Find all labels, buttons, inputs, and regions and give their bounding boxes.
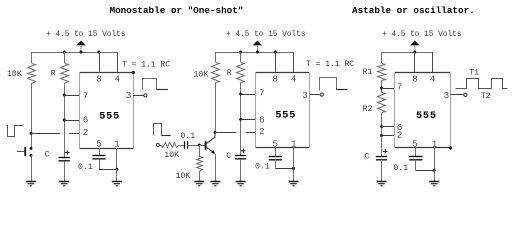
- capacitor 0.1 (circuit 2): [269, 156, 282, 158]
- svg-text:555: 555: [99, 111, 120, 122]
- svg-text:10K: 10K: [176, 172, 191, 181]
- wire: 0.1 down (c3): [415, 160, 417, 171]
- svg-text:8: 8: [96, 74, 102, 85]
- ground (C, circuit 3): [377, 181, 387, 183]
- dot at box1 top-right corner: [132, 71, 135, 74]
- svg-text:+ 4.5 to 15 Volts: + 4.5 to 15 Volts: [382, 31, 462, 39]
- junction: pin1/0.1 (c1): [115, 168, 118, 171]
- svg-text:555: 555: [416, 111, 437, 122]
- svg-text:R1: R1: [363, 68, 373, 77]
- svg-text:0.1: 0.1: [180, 132, 195, 141]
- junction: pin6 node: [63, 119, 66, 122]
- wire: C to ground (c2): [240, 159, 242, 182]
- svg-text:3: 3: [302, 90, 308, 101]
- svg-text:R: R: [51, 70, 56, 79]
- junction: trigger node / pin2 wire: [30, 132, 33, 135]
- wire: C to ground (c3): [381, 160, 383, 182]
- wire: pin 7 lead (c2): [241, 94, 256, 96]
- junction: collector/pin2 node: [214, 131, 217, 134]
- polarity + (C circuit 1): [65, 152, 69, 154]
- wire: emitter to ground: [215, 154, 217, 182]
- wire: pin 5 stub down (c2): [275, 148, 277, 156]
- op-amp/timer U1 555 box (circuit 1): [80, 72, 134, 74]
- svg-text:0.1: 0.1: [78, 163, 93, 172]
- svg-text:7: 7: [259, 88, 265, 99]
- svg-text:+ 4.5 to 15 Volts: + 4.5 to 15 Volts: [46, 31, 126, 39]
- wire: pin 1 stub down (c2): [293, 148, 295, 169]
- svg-text:10K: 10K: [164, 151, 179, 160]
- svg-text:2: 2: [83, 127, 89, 138]
- capacitor C (circuit 1): [59, 157, 70, 159]
- junction: arrow/pin8 on rail 3: [413, 51, 416, 54]
- wire: pin 3 output lead (c1): [133, 95, 143, 97]
- trigger input terminal (c2): [156, 143, 159, 146]
- transistor collector: [207, 132, 216, 143]
- polarity + (C circuit 3): [383, 150, 387, 152]
- output terminal circle (c3): [464, 93, 467, 96]
- wire: R bottom down to cap C: [64, 83, 66, 158]
- capacitor 0.1 (circuit 1): [92, 155, 105, 157]
- output terminal circle (c1): [144, 94, 147, 97]
- wire: R2 bottom down to cap C (c3): [381, 113, 383, 157]
- wire: 0.1 bottom to pin1 (c2): [275, 168, 293, 170]
- wire: 0.1 bottom to pin1 (c3): [416, 170, 435, 172]
- svg-text:8: 8: [272, 74, 278, 85]
- junction: pin2 node (c3): [380, 134, 383, 137]
- capacitor C (circuit 2): [235, 155, 246, 157]
- wire: 0.1 down (c2): [275, 159, 277, 168]
- timer U2 555 box (circuit 2): [256, 72, 310, 74]
- svg-text:8: 8: [412, 74, 418, 85]
- resistor 10K to ground (trigger c2): [197, 157, 203, 172]
- supply arrow (circuit 3): [410, 41, 419, 46]
- wire: pin 4 stub (c2): [293, 52, 295, 72]
- junction: pin8 on rail 1: [98, 51, 101, 54]
- wire: pin 6 lead (c3): [382, 126, 395, 128]
- svg-text:3: 3: [444, 90, 450, 101]
- wire: to ground (pin1 c3): [434, 170, 436, 182]
- capacitor 0.1 series (trigger c2): [184, 141, 186, 148]
- wire: pin 7 lead (c3): [382, 88, 395, 90]
- junction: pin6 node (c3): [380, 125, 383, 128]
- ground (button, circuit 1): [26, 181, 36, 183]
- junction: base node: [198, 144, 201, 147]
- wire: top rail circuit 3: [382, 52, 433, 54]
- wire: R1 to R2: [381, 81, 383, 93]
- wire: R top lead (c2): [240, 52, 242, 62]
- junction: pin6 node (c2): [239, 118, 242, 121]
- junction: R top on rail 2: [239, 51, 242, 54]
- transistor emitter: [207, 147, 214, 153]
- ground (pin 1, circuit 3): [429, 181, 439, 183]
- resistor 10K (circuit 1): [28, 64, 36, 84]
- wire: to ground (pin1 c1): [116, 169, 118, 182]
- wire: to ground (pin1 c2): [293, 169, 295, 182]
- capacitor C (circuit 3): [376, 156, 387, 158]
- wire: pin 6 lead: [64, 120, 79, 122]
- svg-text:555: 555: [275, 110, 296, 121]
- svg-text:3: 3: [126, 90, 132, 101]
- svg-text:0.1: 0.1: [393, 164, 408, 173]
- pushbutton bar: [24, 147, 26, 156]
- trigger pulse waveform glyph (circuit 1): [7, 126, 24, 137]
- input pulse tail (c2): [161, 135, 170, 137]
- wire: 10K to ground (c2): [199, 171, 201, 182]
- wire: 0.1 bottom to pin1: [99, 169, 117, 171]
- wire: pin 6 lead (c2): [241, 119, 256, 121]
- wire: pin 7 lead: [64, 95, 79, 97]
- supply arrow (circuit 1): [76, 41, 85, 46]
- wire: pin 8 stub (c3): [414, 52, 416, 72]
- ground (pin 1, circuit 1): [112, 181, 122, 183]
- wire: 0.1 to ground wire: [99, 159, 101, 169]
- wire: pin 1 stub down (c3): [434, 148, 436, 171]
- wire: pin 2 lead (left part): [31, 133, 60, 135]
- wire: pin 3 output lead (c3): [451, 94, 464, 96]
- svg-text:R2: R2: [363, 105, 373, 114]
- wire: top rail circuit 1: [31, 52, 117, 54]
- output pulse waveform (c2): [320, 78, 337, 91]
- svg-text:7: 7: [83, 90, 89, 101]
- wire: pin 8 stub: [99, 52, 101, 73]
- wire: pin 4 stub: [117, 52, 119, 73]
- junction: R top on rail 1: [63, 51, 66, 54]
- svg-text:2: 2: [397, 130, 403, 141]
- square wave output (circuit 3): [456, 79, 508, 89]
- pushbutton actuator lead: [17, 151, 24, 153]
- resistor R2 (circuit 3): [378, 93, 386, 113]
- wire: 10K to collector node: [215, 83, 217, 133]
- svg-text:T1: T1: [469, 69, 479, 78]
- svg-text:1: 1: [114, 138, 120, 149]
- svg-text:T2: T2: [481, 92, 491, 101]
- wire: 10K bottom to button: [31, 83, 33, 148]
- svg-text:T = 1.1 RC: T = 1.1 RC: [306, 60, 354, 69]
- svg-text:T = 1.1 RC: T = 1.1 RC: [122, 61, 170, 70]
- ground (pin 1, circuit 2): [289, 181, 299, 183]
- wire: pin 3 output lead (c2): [310, 94, 320, 96]
- resistor 10K pull-up (circuit 2): [212, 63, 220, 83]
- wire: pin 4 stub (c3): [432, 52, 434, 72]
- wire: pin 2 lead (right part): [69, 133, 79, 135]
- ground (C, circuit 2): [236, 181, 246, 183]
- output pulse waveform (c1): [143, 79, 157, 90]
- wire: R bottom down to cap C (c2): [240, 83, 242, 156]
- output pulse tail (c2): [336, 89, 348, 91]
- wire: pin 2 lead left (c2): [215, 132, 236, 134]
- junction: arrow on rail 1: [80, 51, 83, 54]
- wire: R top lead: [64, 52, 66, 63]
- wire: base lead: [201, 145, 205, 147]
- transistor base bar: [205, 141, 207, 150]
- wire: pin 1 stub down: [116, 148, 118, 169]
- svg-text:5: 5: [412, 138, 418, 149]
- wire: pin 5 stub down: [99, 148, 101, 155]
- wire: pin 5 stub down (c3): [415, 148, 417, 156]
- junction: pin1/0.1 (c3): [433, 169, 436, 172]
- svg-text:5: 5: [272, 138, 278, 149]
- svg-text:10K: 10K: [194, 70, 209, 79]
- dot at box3 bottom-right corner: [449, 146, 452, 149]
- svg-text:5: 5: [96, 138, 102, 149]
- resistor R (circuit 1): [61, 64, 69, 84]
- svg-text:2: 2: [259, 126, 265, 137]
- junction: pin8 on rail 2: [274, 51, 277, 54]
- svg-text:Astable or oscillator.: Astable or oscillator.: [352, 5, 475, 16]
- wire: C to ground: [64, 161, 66, 182]
- resistor 10K series (trigger c2): [162, 143, 179, 148]
- svg-text:10K: 10K: [7, 70, 22, 79]
- svg-text:1: 1: [432, 138, 438, 149]
- output terminal circle (c2): [320, 93, 323, 96]
- wire: R1 top lead: [381, 52, 383, 63]
- timer U3 555 box (circuit 3): [395, 72, 451, 74]
- wire: 10K top lead (c2): [215, 52, 217, 62]
- junction: pin1/0.1 (c2): [292, 167, 295, 170]
- wire: pin 2 lead (c3): [382, 135, 395, 137]
- svg-text:1: 1: [291, 138, 297, 149]
- wire: button to ground: [31, 155, 33, 182]
- svg-text:C: C: [226, 152, 231, 161]
- output pulse tail (c1): [157, 89, 168, 91]
- svg-text:+ 4.5 to 15 Volts: + 4.5 to 15 Volts: [226, 31, 306, 39]
- resistor R1 (circuit 3): [378, 64, 386, 81]
- svg-text:Monostable or "One-shot": Monostable or "One-shot": [110, 5, 244, 16]
- svg-text:7: 7: [397, 82, 403, 93]
- svg-text:6: 6: [83, 115, 89, 126]
- button contact bottom: [30, 154, 33, 157]
- capacitor 0.1 (circuit 3): [409, 156, 422, 158]
- svg-text:0.1: 0.1: [255, 163, 270, 172]
- ground (emitter, c2): [210, 181, 220, 183]
- resistor R (circuit 2): [237, 63, 245, 83]
- junction: pin7 node (c3): [380, 87, 383, 90]
- junction: pin7 node: [63, 94, 66, 97]
- wire: input to 10K: [160, 145, 162, 147]
- junction: arrow on rail 2: [256, 51, 259, 54]
- ground (C, circuit 1): [59, 181, 69, 183]
- input pulse waveform glyph (circuit 2): [154, 124, 162, 136]
- wire: base node down to 10K: [199, 145, 201, 157]
- svg-text:4: 4: [291, 74, 297, 85]
- wire: 10K top lead: [31, 52, 33, 63]
- wire: top rail circuit 2: [215, 52, 294, 54]
- svg-text:4: 4: [430, 74, 436, 85]
- wire: pin 2 lead right (c2): [246, 132, 256, 134]
- svg-text:R: R: [227, 69, 232, 78]
- junction: pin7 node (c2): [239, 93, 242, 96]
- wire: pin 8 stub (c2): [275, 52, 277, 72]
- supply arrow (circuit 2): [253, 41, 262, 46]
- svg-text:C: C: [365, 153, 370, 162]
- svg-text:4: 4: [115, 74, 121, 85]
- svg-text:6: 6: [259, 114, 265, 125]
- svg-text:C: C: [45, 150, 50, 159]
- wire: 10K to 0.1 cap: [178, 145, 184, 147]
- polarity + (C circuit 2): [241, 150, 245, 152]
- ground (trigger 10K, c2): [194, 181, 204, 183]
- button contact top: [30, 147, 33, 150]
- wire: 0.1 to base node: [188, 145, 200, 147]
